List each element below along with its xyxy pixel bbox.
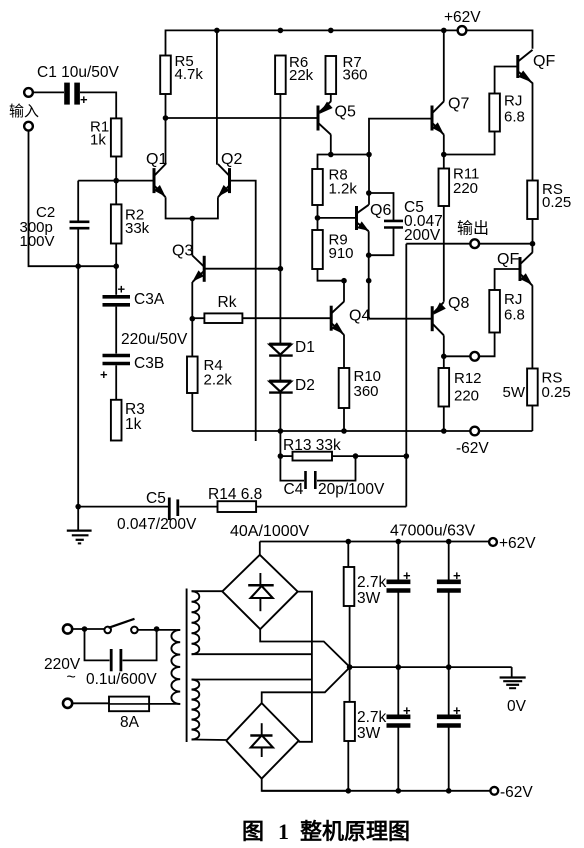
terminal driver node [470, 352, 479, 361]
svg-text:0V: 0V [507, 698, 527, 715]
node bootstrap [366, 278, 372, 284]
resistor R14 [218, 501, 257, 512]
transistor Q2 [218, 164, 230, 197]
node R10 rail [341, 428, 347, 434]
wire C3B-R3 [115, 365, 117, 400]
terminal -62V right [490, 787, 498, 795]
wire Q6 base [318, 217, 357, 219]
label C1 value [37, 64, 120, 81]
svg-text:RJ: RJ [504, 291, 522, 308]
svg-text:220: 220 [453, 180, 478, 197]
node Q2 collector rail [214, 28, 220, 34]
node fb-R13 [404, 453, 410, 459]
svg-text:QF: QF [533, 53, 555, 70]
svg-text:C4: C4 [284, 481, 304, 498]
node tail [190, 216, 196, 222]
node output right [530, 241, 536, 247]
svg-text:40A/1000V: 40A/1000V [230, 523, 310, 540]
node cap1 rail [396, 539, 402, 545]
svg-text:~: ~ [67, 669, 76, 686]
wire mains-switch [72, 628, 105, 630]
svg-text:-62V: -62V [456, 440, 489, 457]
input terminal upper (输入) [24, 88, 33, 131]
wire bridge-l minus [262, 779, 349, 791]
node feedback-ground [75, 504, 81, 510]
wire Rk leads [192, 317, 331, 319]
resistor R7 [326, 56, 337, 94]
wire VAS top link [318, 155, 370, 170]
label R13 33k [283, 437, 341, 454]
svg-text:Rk: Rk [218, 294, 237, 311]
label -62V right [500, 784, 533, 801]
label RS lower [542, 370, 571, 402]
label C3B [134, 355, 164, 372]
svg-text:100V: 100V [20, 233, 55, 250]
wire R13 left lead [280, 455, 292, 457]
svg-text:RJ: RJ [504, 93, 522, 110]
transistor Q4 [331, 302, 344, 335]
wire Q7e-RJ [444, 132, 495, 155]
wire C2 to node [77, 228, 79, 266]
label Rk [218, 294, 237, 311]
node Q5c [328, 152, 334, 158]
svg-text:5W: 5W [503, 384, 526, 401]
node Q7 collector rail [441, 28, 447, 34]
label 5W [503, 384, 526, 401]
wire input to C1 [33, 91, 64, 93]
wire R10 bottom [343, 408, 345, 431]
wire +62V supply rail [260, 541, 489, 543]
terminal output [470, 239, 479, 248]
svg-text:360: 360 [343, 67, 368, 84]
node C5 top [366, 190, 372, 196]
label C4 [284, 481, 304, 498]
svg-text:D2: D2 [295, 377, 315, 394]
svg-text:Q8: Q8 [448, 295, 469, 312]
wire QFl collector [531, 244, 533, 253]
node switch left [82, 626, 88, 632]
wire feedback vertical [405, 244, 407, 507]
svg-text:Q6: Q6 [370, 202, 391, 219]
capacitor C5 VAS loop [369, 193, 403, 255]
wire Q2 base [230, 181, 256, 441]
wire R5-Q1 [165, 94, 167, 165]
svg-text:C1 10u/50V: C1 10u/50V [37, 64, 120, 81]
resistor R9 [312, 230, 323, 269]
svg-text:33k: 33k [125, 220, 150, 237]
label 220V [44, 656, 81, 673]
label +62V right [499, 535, 536, 552]
svg-text:C5: C5 [146, 490, 166, 507]
node supply mid [347, 664, 353, 670]
label 2.7k lower [357, 709, 387, 742]
wire sec-u bottom [192, 653, 312, 655]
label C5 VAS [404, 199, 443, 244]
wire Q1 emitter [166, 197, 193, 218]
label 输出 [457, 220, 489, 238]
svg-text:2.2k: 2.2k [204, 372, 233, 389]
node Q7e [441, 152, 447, 158]
svg-text:+: + [100, 367, 108, 382]
transistor QF lower [520, 252, 532, 285]
label QF lower [497, 251, 519, 268]
resistor RS upper [527, 181, 538, 220]
wire sec-l bottom [192, 739, 227, 742]
label R6 [289, 54, 314, 84]
resistor R12 [439, 368, 450, 407]
node 2.7k-u rail [346, 539, 352, 545]
resistor R8 [312, 169, 323, 205]
label 220u/50V [121, 331, 188, 348]
wire QFl emitter [531, 285, 533, 368]
transistor Q1 [154, 164, 166, 197]
svg-text:+: + [80, 92, 88, 107]
resistor R6 [275, 56, 286, 95]
svg-text:C3B: C3B [134, 355, 164, 372]
ground 0V [500, 667, 526, 688]
svg-text:输出: 输出 [457, 220, 489, 238]
terminal mains lower [63, 699, 72, 708]
svg-text:0.25: 0.25 [542, 194, 571, 211]
node R13 left [278, 453, 284, 459]
svg-text:910: 910 [329, 245, 354, 262]
svg-text:输入: 输入 [9, 103, 39, 120]
svg-text:0.1u/600V: 0.1u/600V [86, 671, 157, 688]
wire Q5 base [166, 117, 319, 119]
wire sec-l top [192, 679, 312, 681]
node R13 right [353, 453, 359, 459]
label QF upper [533, 53, 555, 70]
wire -62V supply rail [262, 790, 491, 792]
wire R7-Q5e [330, 94, 332, 102]
label R5 [175, 53, 204, 83]
wire Q7 base [369, 119, 432, 155]
switch [104, 619, 137, 633]
svg-text:22k: 22k [289, 67, 314, 84]
svg-text:0.25: 0.25 [542, 384, 571, 401]
node cap1 -62 [396, 788, 402, 794]
wire -62V rail upper [192, 430, 532, 432]
wire ground rail [77, 266, 79, 530]
transformer secondary upper [192, 591, 200, 654]
label 2.7k upper [357, 574, 387, 607]
wire RSu-output [532, 219, 534, 244]
label R10 [354, 368, 382, 400]
diode D2 [269, 381, 293, 393]
wire Q8 collector [443, 335, 445, 368]
fuse 8A [109, 697, 149, 712]
wire fuse-xfmr [149, 703, 177, 705]
resistor R5 [160, 56, 171, 95]
node Q6 base node [315, 215, 321, 221]
transistor Q7 [432, 101, 444, 134]
wire QFu base [495, 67, 518, 94]
resistor RJ upper [489, 94, 500, 132]
svg-text:1k: 1k [90, 132, 106, 149]
node Q8c [441, 354, 447, 360]
label 20p/100V [318, 481, 385, 498]
node C5 bottom [366, 252, 372, 258]
bridge rectifier upper [222, 555, 297, 629]
diode D1 [269, 344, 293, 356]
wire R14 line [180, 506, 407, 508]
label C2 value [20, 204, 56, 250]
wire output rail [406, 243, 532, 245]
terminal +62V right [489, 538, 497, 546]
transistor Q6 [357, 205, 369, 231]
label RJ upper [504, 93, 525, 126]
node cap1 0V [396, 664, 402, 670]
label 0.1u/600V [86, 671, 157, 688]
node Q3 base bias [278, 266, 284, 272]
label R2 [125, 207, 150, 238]
label R7 [343, 54, 368, 84]
ground [67, 531, 92, 544]
label RJ lower [504, 291, 525, 324]
transistor Q8 [432, 302, 446, 335]
label R11 [453, 166, 479, 198]
wire bridge-u minus [260, 629, 349, 667]
svg-text:3W: 3W [357, 590, 381, 607]
node cap2 -62 [446, 788, 452, 794]
node cap2 rail [446, 539, 452, 545]
wire 2.7k-l leads [348, 667, 349, 791]
wire R11-Q8e [443, 206, 445, 302]
node switch right [154, 626, 160, 632]
wire tail-Q3 [191, 219, 193, 256]
label Q5 [335, 104, 356, 121]
wire Q3 base [204, 268, 280, 270]
capacitor C3B [100, 356, 130, 383]
wire Q1 base line [78, 180, 154, 182]
label 40A/1000V [230, 523, 310, 540]
svg-text:+62V: +62V [499, 535, 536, 552]
svg-text:Q2: Q2 [221, 151, 242, 168]
label Q4 [349, 308, 370, 325]
capacitor filter l2 [437, 667, 461, 791]
svg-text:+: + [403, 703, 411, 718]
svg-text:Q1: Q1 [146, 151, 167, 168]
wire C5-ground [78, 506, 168, 508]
transistor Q3 [192, 256, 204, 283]
label 47000u/63V [390, 523, 476, 540]
svg-text:-62V: -62V [500, 784, 533, 801]
wire R13 right lead [332, 455, 406, 457]
svg-text:1.2k: 1.2k [329, 181, 358, 198]
svg-text:1k: 1k [125, 416, 142, 433]
svg-text:2.7k: 2.7k [357, 709, 387, 726]
node 2.7k-l rail [346, 788, 352, 794]
wire Q7 emitter [443, 134, 445, 168]
wire Q2 collector [216, 30, 218, 164]
node R7 rail [328, 28, 334, 34]
capacitor C1 [64, 83, 88, 107]
transistor Q5 [318, 101, 333, 134]
node R6 rail [278, 28, 284, 34]
label RS upper [542, 181, 571, 211]
svg-text:Q4: Q4 [349, 308, 370, 325]
wire Q2 emitter [192, 197, 218, 218]
wire to C3A [115, 266, 117, 295]
node C2 bottom [75, 263, 81, 269]
label -62V upper [456, 440, 489, 457]
node Q5 base tap [163, 115, 169, 121]
svg-text:360: 360 [354, 383, 379, 400]
svg-text:8A: 8A [120, 714, 140, 731]
label 0V [507, 698, 527, 715]
svg-text:200V: 200V [404, 227, 441, 244]
resistor RJ lower [489, 290, 500, 333]
label R9 [329, 231, 354, 262]
label R12 [454, 370, 482, 405]
label ~ [67, 669, 76, 686]
wire Q4 collector [343, 281, 345, 302]
terminal mains upper [63, 624, 72, 633]
wire +62V rail [166, 30, 533, 55]
label Q3 [172, 243, 193, 260]
capacitor filter u2 [437, 542, 461, 668]
wire bridge-u plus [259, 542, 261, 555]
resistor R13 [293, 452, 333, 461]
svg-text:2.7k: 2.7k [357, 574, 387, 591]
caption 图1 整机原理图 [242, 819, 410, 844]
wire R8-R9 [317, 205, 319, 230]
transformer secondary lower [192, 680, 200, 740]
wire C3A-C3B [115, 307, 117, 354]
svg-text:Q5: Q5 [335, 104, 356, 121]
wire R4 leads [191, 319, 193, 431]
wire QFl base [495, 269, 520, 290]
svg-text:R14 6.8: R14 6.8 [208, 486, 262, 503]
wire input low to node [29, 130, 117, 266]
resistor R11 [439, 169, 450, 207]
svg-text:D1: D1 [295, 339, 315, 356]
capacitor C2 [70, 222, 90, 228]
svg-text:R13 33k: R13 33k [283, 437, 341, 454]
label 输入 [9, 103, 39, 120]
wire VAS vertical [368, 155, 370, 205]
node R2 bottom [113, 263, 119, 269]
label +62V top [444, 9, 481, 26]
node Q4 collector [341, 278, 347, 284]
node Rk left [190, 316, 196, 322]
wire to C2 [77, 181, 79, 222]
label Q1 [146, 151, 167, 168]
label D2 [295, 377, 315, 394]
svg-text:6.8: 6.8 [504, 307, 525, 324]
resistor R4 [187, 357, 198, 394]
svg-text:Q3: Q3 [172, 243, 193, 260]
svg-text:+: + [118, 282, 126, 297]
resistor 2.7k lower [344, 702, 355, 741]
bridge rectifier lower [226, 703, 299, 779]
svg-text:4.7k: 4.7k [175, 66, 204, 83]
svg-text:R12: R12 [454, 370, 482, 387]
resistor R1 [111, 118, 122, 156]
wire RSl bottom [531, 406, 533, 432]
svg-text:+: + [453, 568, 461, 583]
capacitor C5 feedback [169, 498, 178, 521]
capacitor filter l1 [387, 667, 412, 791]
wire R12 bottom [443, 407, 445, 432]
svg-text:+: + [403, 568, 411, 583]
svg-text:1: 1 [278, 819, 289, 844]
svg-text:220: 220 [454, 388, 479, 405]
label D1 [295, 339, 315, 356]
capacitor filter u1 [387, 542, 412, 668]
svg-text:0.047/200V: 0.047/200V [117, 516, 197, 533]
label R14 6.8 [208, 486, 262, 503]
svg-text:47000u/63V: 47000u/63V [390, 523, 476, 540]
label 8A [120, 714, 140, 731]
resistor R3 [111, 400, 122, 441]
wire Q7 collector [443, 30, 445, 101]
wire bias chain [279, 94, 281, 456]
transistor QF upper [518, 50, 533, 83]
label R1 [90, 119, 109, 149]
label C3A [134, 291, 165, 308]
label R4 [204, 357, 233, 389]
wire R9 bottom [318, 269, 345, 281]
node R1-R2-base [113, 178, 119, 184]
transformer primary coil [171, 630, 180, 704]
label C5 feedback [146, 490, 166, 507]
wire R1 to node [115, 157, 117, 181]
node bias chain rail [278, 428, 284, 434]
svg-text:整机原理图: 整机原理图 [300, 819, 410, 844]
svg-text:Q7: Q7 [448, 96, 469, 113]
svg-text:图: 图 [242, 819, 264, 844]
wire 0V rail [350, 666, 512, 668]
svg-text:+62V: +62V [444, 9, 481, 26]
label R3 [125, 401, 145, 433]
capacitor 0.1u/600V [85, 629, 157, 671]
wire mains-fuse [72, 702, 109, 704]
node cap2 0V [446, 664, 452, 670]
resistor R2 [111, 204, 122, 243]
wire RJl bottom [444, 333, 495, 357]
wire QFu emitter [532, 83, 534, 181]
wire Q3e-Rk [191, 282, 193, 319]
label Q7 [448, 96, 469, 113]
node R12 rail [441, 428, 447, 434]
terminal -62V upper [470, 427, 479, 436]
terminal +62V top [458, 26, 467, 35]
wire R2 stubs [115, 181, 117, 267]
resistor Rk [204, 313, 242, 323]
svg-text:3W: 3W [357, 725, 381, 742]
label Q6 [370, 202, 391, 219]
capacitor C4 [280, 456, 355, 489]
node VAS right [366, 152, 372, 158]
resistor R10 [339, 368, 350, 408]
svg-text:+: + [453, 703, 461, 718]
label R8 [329, 167, 358, 198]
wire Q8 base [369, 318, 433, 320]
capacitor C3A [103, 282, 131, 305]
wire Q4 emitter [343, 335, 345, 368]
wire sec-u top [192, 590, 223, 592]
svg-text:220u/50V: 220u/50V [121, 331, 188, 348]
svg-text:QF: QF [497, 251, 519, 268]
svg-text:C3A: C3A [134, 291, 165, 308]
wire switch-xfmr [138, 629, 177, 631]
label 0.047/200V [117, 516, 197, 533]
wire C1 to R1 [80, 92, 116, 118]
wire 2.7k-u leads [348, 542, 349, 668]
wire Q6 emitter down [368, 231, 370, 319]
wire AC line [298, 592, 312, 742]
